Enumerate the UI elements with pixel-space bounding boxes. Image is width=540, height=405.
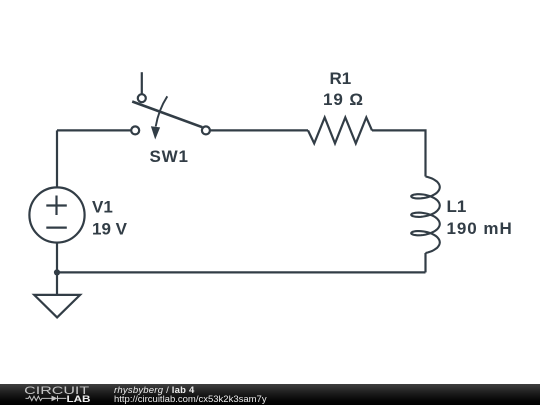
node dot (junction at ground) bbox=[54, 269, 60, 275]
switch SW1 blade bbox=[132, 102, 202, 128]
svg-text:V1: V1 bbox=[92, 198, 113, 217]
V1 minus sign bbox=[46, 227, 67, 229]
switch terminal circles bbox=[29, 94, 210, 242]
svg-text:L1: L1 bbox=[447, 197, 467, 216]
logo resistor-diode glyph bbox=[26, 396, 67, 402]
wire: left vertical from corner down to V1 top bbox=[56, 130, 58, 186]
V1 plus sign bbox=[46, 196, 67, 216]
svg-text:190 mH: 190 mH bbox=[447, 219, 513, 238]
logo diode triangle bbox=[52, 396, 58, 402]
switch top terminal circle bbox=[138, 94, 146, 102]
resistor R1 zigzag body bbox=[308, 117, 372, 143]
wire: top-left horizontal from corner to switch left terminal bbox=[57, 129, 132, 131]
switch SW1 stub bbox=[141, 72, 143, 94]
V1 source circle bbox=[29, 187, 84, 242]
wire: bottom horizontal from node to right vertical bbox=[57, 271, 426, 273]
wire: V1 bottom to ground node bbox=[56, 243, 58, 294]
svg-text:LAB: LAB bbox=[67, 394, 91, 405]
svg-text:19 Ω: 19 Ω bbox=[323, 90, 364, 109]
ground symbol bbox=[34, 295, 80, 318]
switch left terminal circle bbox=[131, 126, 139, 134]
switch right terminal circle bbox=[202, 126, 210, 134]
wire: switch right terminal to resistor left lead bbox=[210, 129, 309, 131]
CircuitLab logo bbox=[0, 384, 100, 405]
svg-text:R1: R1 bbox=[330, 69, 352, 88]
footer meta text bbox=[114, 386, 267, 405]
switch SW1 arrowhead bbox=[151, 126, 160, 139]
svg-text:19 V: 19 V bbox=[92, 220, 128, 239]
inductor L1 coil bbox=[411, 177, 440, 254]
footer black bar bbox=[0, 384, 540, 405]
svg-text:SW1: SW1 bbox=[150, 147, 189, 166]
wire: resistor right lead to top-right corner and down to L1 bbox=[372, 130, 426, 176]
wire: L1 bottom to bottom wire bbox=[424, 253, 426, 272]
switch SW1 actuation arc bbox=[156, 96, 168, 126]
